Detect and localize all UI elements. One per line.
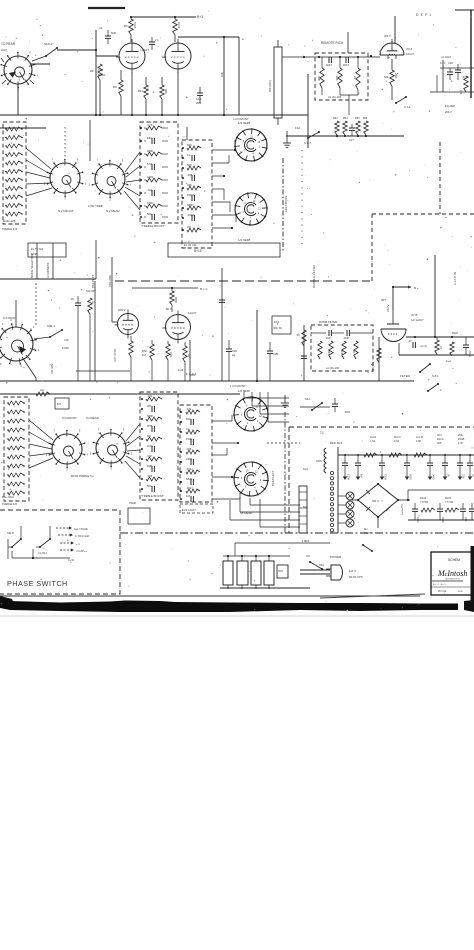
svg-text:C2: C2 xyxy=(187,153,191,157)
svg-text:C10A: C10A xyxy=(347,474,350,480)
strip2 resistor row 10 xyxy=(8,482,24,486)
psu wire y490 xyxy=(408,489,474,491)
svg-text:+(1.A): +(1.A) xyxy=(420,345,427,348)
TB4 component C4 xyxy=(186,430,200,434)
psu dashed boundary top xyxy=(289,426,474,428)
wire bottom in box xyxy=(340,94,358,96)
psu wire y520 xyxy=(408,519,474,521)
svg-text:680K: 680K xyxy=(186,477,192,481)
svg-text:.0047: .0047 xyxy=(343,336,350,340)
TB2 component 33K xyxy=(187,186,201,190)
svg-text:SCHEM: SCHEM xyxy=(448,558,460,562)
svg-text:DLA: DLA xyxy=(303,467,308,471)
bridge rectifier SR3 xyxy=(358,484,398,517)
lamp wires xyxy=(338,495,346,497)
svg-text:S 8-1: S 8-1 xyxy=(432,374,439,378)
svg-text:45B: 45B xyxy=(317,76,321,81)
svg-text:.0029: .0029 xyxy=(187,213,194,217)
TB4 component 1M xyxy=(190,496,192,502)
vertical wires with labels above bus xyxy=(36,243,38,279)
TB3 component R7B xyxy=(151,426,153,432)
resistor right cluster xyxy=(464,76,468,92)
strip2 resistor row 1 xyxy=(8,401,24,405)
TB2 component C2 xyxy=(191,155,193,161)
svg-text:63A 93V: 63A 93V xyxy=(86,289,96,293)
svg-text:SR7: SR7 xyxy=(381,299,386,302)
svg-text:BLK: BLK xyxy=(303,505,308,509)
svg-text:12AX7: 12AX7 xyxy=(188,311,197,315)
psu series resistor 2 xyxy=(389,453,402,457)
svg-text:S.0 FRONT: S.0 FRONT xyxy=(3,316,17,320)
wire x396 vertical xyxy=(392,287,394,310)
svg-text:.072: .072 xyxy=(186,407,192,411)
psu cap drop 0400 xyxy=(429,455,431,463)
svg-text:TREBLE 3x5: TREBLE 3x5 xyxy=(2,502,18,506)
strip2 resistor row 3 xyxy=(8,419,24,423)
svg-text:150K: 150K xyxy=(147,201,153,205)
resistor R12 xyxy=(160,85,164,99)
resistor row above bus 2 xyxy=(343,121,347,135)
svg-text:R9A 47A: R9A 47A xyxy=(372,362,375,372)
svg-text:1000: 1000 xyxy=(147,444,153,448)
bus y136 right xyxy=(286,135,404,137)
svg-text:OFF: OFF xyxy=(319,563,325,567)
cathode resistor under V3 xyxy=(391,59,393,70)
svg-text:100K: 100K xyxy=(133,22,137,29)
resistor 470K in box xyxy=(320,68,324,88)
TB4 component 680K xyxy=(190,479,192,485)
treble boost dashed box 2 xyxy=(182,140,212,248)
svg-text:R11: R11 xyxy=(138,89,143,93)
cap between tubes xyxy=(149,41,155,43)
svg-text:V7 B: V7 B xyxy=(411,313,418,317)
B+ arrow xyxy=(393,286,411,288)
electrolytic cap can 3 xyxy=(251,561,261,585)
power switch xyxy=(310,562,322,569)
tube V4 6EZ8 pin wheel xyxy=(235,129,267,161)
svg-text:REMOTE RICH: REMOTE RICH xyxy=(321,41,344,45)
title block outer box xyxy=(431,552,474,595)
svg-text:S Q-7: S Q-7 xyxy=(304,141,312,145)
dash wire V8 right xyxy=(267,442,300,444)
svg-text:1/2 6EZ8: 1/2 6EZ8 xyxy=(238,121,251,125)
svg-text:C+A+37A: C+A+37A xyxy=(401,504,404,515)
box R7A xyxy=(272,316,291,334)
svg-text:S4 REAR: S4 REAR xyxy=(86,416,100,420)
svg-text:200 V: 200 V xyxy=(118,308,126,312)
svg-text:A000: A000 xyxy=(409,474,412,480)
svg-text:S1R-2: S1R-2 xyxy=(44,42,53,46)
svg-text:680K: 680K xyxy=(147,414,153,418)
svg-text:.0047: .0047 xyxy=(325,336,332,340)
bus y394 xyxy=(0,393,240,395)
tube V3 half 12AX7 xyxy=(380,43,404,55)
strip2 resistor row 5 xyxy=(8,437,24,441)
svg-text:EL 20 74L: EL 20 74L xyxy=(184,243,197,247)
strip resistor row 7 xyxy=(6,178,22,182)
svg-text:P020: P020 xyxy=(452,331,459,335)
svg-text:33K: 33K xyxy=(187,183,192,187)
wire y337 right xyxy=(406,336,474,338)
resistor right mid 2 xyxy=(450,342,454,356)
svg-text:V 1-2: V 1-2 xyxy=(404,105,411,109)
title block rule 2 xyxy=(432,580,463,582)
svg-text:2 b: 2 b xyxy=(155,39,159,42)
scan band underline faint xyxy=(0,615,474,617)
svg-text:C+A: C+A xyxy=(446,360,451,363)
cap .47 xyxy=(412,342,414,348)
svg-text:6H: 6H xyxy=(364,527,367,531)
svg-text:R5: R5 xyxy=(124,24,128,28)
svg-text:5.6K: 5.6K xyxy=(147,162,153,166)
svg-text:ALL I PAGE: ALL I PAGE xyxy=(74,527,88,531)
svg-text:680K: 680K xyxy=(147,149,153,153)
svg-text:B+3: B+3 xyxy=(197,15,203,19)
svg-text:680K: 680K xyxy=(174,297,178,303)
svg-text:6,600: 6,600 xyxy=(62,346,69,350)
left column mid components xyxy=(303,325,305,381)
box B+15 xyxy=(168,243,280,257)
pilot lamp 4 xyxy=(346,519,354,527)
svg-text:T1: T1 xyxy=(320,431,324,435)
cap cans bottom wire xyxy=(220,587,310,589)
small box right of phase xyxy=(128,508,150,524)
wire top margin mark xyxy=(88,7,125,9)
TB3 component .022 xyxy=(146,397,162,401)
psu cap drop A0 xyxy=(357,455,359,463)
svg-text:12AX7: 12AX7 xyxy=(406,52,415,56)
svg-text:+0 C0A7: +0 C0A7 xyxy=(441,55,452,59)
svg-text:+ 4: + 4 xyxy=(76,543,80,546)
rumble filter dashed box xyxy=(311,325,373,371)
svg-text:A 4 + 1 - A + 2: A 4 + 1 - A + 2 xyxy=(433,583,446,586)
tube V7 half cup xyxy=(381,329,406,342)
TB2 component PART xyxy=(191,195,193,201)
phase arrow 4 xyxy=(60,549,72,551)
wire box to bus xyxy=(348,95,350,115)
svg-text:2a: 2a xyxy=(232,353,235,357)
svg-text:A.U.M: A.U.M xyxy=(416,436,423,439)
wire x257 vertical xyxy=(256,310,258,381)
scan noise speckles xyxy=(153,92,154,93)
svg-text:A.F.T.P IN: A.F.T.P IN xyxy=(453,272,457,285)
transformer terminals xyxy=(330,471,333,474)
svg-text:S9-1: S9-1 xyxy=(305,397,311,401)
rotary switch S2 REAR xyxy=(95,164,125,194)
rumble resistor 2 xyxy=(329,341,333,359)
svg-text:POWER: POWER xyxy=(330,555,342,559)
svg-text:MX 110: MX 110 xyxy=(438,590,447,593)
scan band left edge blob xyxy=(0,596,14,607)
svg-text:.022: .022 xyxy=(147,394,153,398)
psu cap drop C10A xyxy=(344,455,346,463)
svg-text:56K: 56K xyxy=(147,484,152,488)
svg-text:R7A: R7A xyxy=(274,320,279,324)
svg-text:C83: C83 xyxy=(464,517,467,522)
psu series resistor 1 xyxy=(364,453,377,457)
svg-text:CL-60-1: CL-60-1 xyxy=(38,551,48,555)
tube V8 pin wheel xyxy=(234,397,268,431)
treble boost dashed box 3 xyxy=(140,392,178,500)
tube V9 pin wheel xyxy=(234,462,268,496)
TB3 component C32 xyxy=(146,457,162,461)
svg-text:+O+3P++: +O+3P++ xyxy=(76,550,87,553)
resistor R27 xyxy=(166,344,170,360)
rumble cap b xyxy=(346,330,348,336)
strip resistor row 9 xyxy=(6,195,22,199)
svg-text:LOUDNESS: LOUDNESS xyxy=(46,262,50,278)
svg-text:.022: .022 xyxy=(147,188,153,192)
cap C26 xyxy=(228,340,230,349)
svg-text:S4 FRONT: S4 FRONT xyxy=(62,416,77,420)
nested corner wires right of tone xyxy=(229,500,231,520)
TB3 component 1M xyxy=(146,437,162,441)
rumble resistor 1 xyxy=(318,341,322,359)
cap right cluster xyxy=(455,69,461,71)
dash-dot boundary y281 xyxy=(115,280,370,282)
wire to V1 grid xyxy=(57,49,96,51)
psu cap drop A000 xyxy=(406,455,408,463)
svg-text:.0047: .0047 xyxy=(325,63,332,67)
TB2 component 50K xyxy=(187,166,201,170)
net wire into box xyxy=(282,56,322,58)
svg-text:BAL-NAM: BAL-NAM xyxy=(2,495,14,499)
wire vertical x224 xyxy=(223,37,225,115)
wire x222 vertical xyxy=(221,268,223,381)
svg-text:487: 487 xyxy=(147,404,152,408)
svg-text:EQ AMP: EQ AMP xyxy=(445,104,455,108)
phase arrow 3 xyxy=(60,542,72,544)
svg-text:C28: C28 xyxy=(448,61,453,65)
svg-text:50-60 CPS: 50-60 CPS xyxy=(349,575,363,579)
strip resistor row 3 xyxy=(6,144,22,148)
resistor R52 xyxy=(150,344,154,360)
small box 627 xyxy=(55,398,69,409)
svg-text:.02%: .02% xyxy=(344,410,351,414)
svg-text:EL/2 12AX7: EL/2 12AX7 xyxy=(182,508,196,512)
treble boost dashed box 4 xyxy=(180,405,212,502)
wire y371 xyxy=(76,370,130,372)
wire vertical x395 top xyxy=(394,16,396,43)
tube V5 6EZ8 pin wheel xyxy=(235,193,267,225)
small box EL.70 xyxy=(28,243,66,257)
box NO2 xyxy=(277,565,288,578)
S3 pointer xyxy=(19,346,26,354)
pilot lamp 3 xyxy=(346,510,354,518)
svg-text:MODE SELECTOR: MODE SELECTOR xyxy=(30,254,34,278)
electrolytic cap can 4 xyxy=(264,561,274,585)
svg-text:4.5K: 4.5K xyxy=(416,440,421,443)
scan band thin top line xyxy=(0,595,420,597)
svg-text:B + C: B + C xyxy=(200,287,208,291)
svg-text:.03MA: .03MA xyxy=(468,350,471,357)
TB2 component .0029 xyxy=(191,215,193,221)
svg-text:RUMB.FILTER: RUMB.FILTER xyxy=(319,320,337,324)
terminal strip dashed box left xyxy=(3,122,26,224)
svg-text:PC: PC xyxy=(352,350,355,354)
resistor row above bus 3 xyxy=(356,121,360,135)
vertical wire x90 xyxy=(89,120,91,161)
resistor R2 98,78 xyxy=(98,64,102,80)
svg-text:TO REAR: TO REAR xyxy=(1,42,16,46)
svg-text:2MF: 2MF xyxy=(196,101,202,105)
svg-text:.05: .05 xyxy=(296,334,300,337)
cap C28b xyxy=(269,342,271,351)
psu cap drop 90 xyxy=(469,455,471,463)
TB4 component ARM xyxy=(190,459,192,465)
svg-text:S 2 REAR: S 2 REAR xyxy=(106,209,121,213)
cap cans top wire xyxy=(223,555,290,557)
svg-text:RUMBLE FILTER: RUMBLE FILTER xyxy=(312,265,316,288)
svg-text:+C101-106: +C101-106 xyxy=(326,366,339,370)
TB1 component E9C xyxy=(151,138,153,144)
svg-text:R1CA: R1CA xyxy=(437,438,444,441)
wire vertical x239 xyxy=(238,37,240,115)
svg-text:.27A: .27A xyxy=(462,76,467,79)
S1 wafer ticks xyxy=(1,58,4,62)
dashed vertical x372 xyxy=(371,214,373,281)
svg-text:.0027: .0027 xyxy=(186,486,193,490)
svg-text:C+32: C+32 xyxy=(68,559,75,562)
tube V1 1/2 12AX7 xyxy=(119,43,145,69)
svg-text:TREBLE 3x3: TREBLE 3x3 xyxy=(2,227,18,231)
rumble resistor 3 xyxy=(342,341,346,359)
svg-text:680: 680 xyxy=(394,74,397,79)
wire x112 to V6a grid xyxy=(111,281,113,322)
svg-text:1.5A: 1.5A xyxy=(370,440,375,443)
svg-text:R9: R9 xyxy=(113,85,117,89)
right cluster wires xyxy=(440,67,474,69)
phase arrow 2 xyxy=(58,534,71,536)
resistor row above bus 4 xyxy=(364,121,368,135)
TB4 component .072 xyxy=(186,410,200,414)
svg-text:R2: R2 xyxy=(90,69,94,73)
svg-text:4.5A: 4.5A xyxy=(394,440,399,443)
rotary mode selector switch S3 xyxy=(0,327,33,361)
svg-text:1K: 1K xyxy=(353,76,357,79)
svg-text:200 V: 200 V xyxy=(445,110,452,114)
svg-text:50K: 50K xyxy=(187,163,192,167)
nested corner wires top psu xyxy=(243,392,245,398)
svg-text:4.7K: 4.7K xyxy=(147,123,153,127)
svg-text:D E F 1: D E F 1 xyxy=(416,13,432,17)
svg-text:PART: PART xyxy=(187,193,194,197)
wire vertical x308 xyxy=(307,74,309,148)
resistor right mid 1 xyxy=(435,340,439,354)
psu cap drop C06 xyxy=(459,455,461,463)
svg-text:PHASE SWITCH: PHASE SWITCH xyxy=(7,579,68,588)
svg-text:LABORATORY INC: LABORATORY INC xyxy=(445,578,461,581)
cap C27 xyxy=(349,127,355,129)
TB2 component 50K xyxy=(187,146,201,150)
tube V6b xyxy=(166,315,191,340)
svg-text:1/2 12AX7: 1/2 12AX7 xyxy=(411,318,424,322)
svg-text:BAL.BKZY: BAL.BKZY xyxy=(91,274,95,288)
resistor above V6b xyxy=(170,291,174,305)
rotary switch S4 FRONT xyxy=(52,434,82,464)
wires strip2 to S4F fan xyxy=(29,420,53,440)
strip resistor row 6 xyxy=(6,170,22,174)
svg-text:680: 680 xyxy=(164,89,168,94)
bridge diode ticks xyxy=(386,490,390,494)
svg-text:.47: .47 xyxy=(408,339,412,343)
svg-text:S 2 FRONT: S 2 FRONT xyxy=(58,209,74,213)
svg-text:R64: R64 xyxy=(343,117,348,120)
wire y355 right xyxy=(399,354,474,356)
switch S Q-7 xyxy=(308,132,319,138)
cap right mid xyxy=(463,344,469,346)
strip2 resistor row 7 xyxy=(8,455,24,459)
svg-text:SR 3: SR 3 xyxy=(372,499,379,503)
svg-text:47K: 47K xyxy=(459,90,463,95)
strip resistor row 1 xyxy=(6,127,22,131)
tube V2 cathode drop xyxy=(177,72,179,115)
svg-text:R65: R65 xyxy=(355,117,360,120)
wire vertical x96 xyxy=(95,30,97,115)
psu cap drop F2OK xyxy=(381,455,383,463)
TB4 component .0027 xyxy=(186,489,200,493)
svg-text:C4: C4 xyxy=(99,26,103,30)
TB1 component 680K xyxy=(146,152,162,156)
tube V6a xyxy=(118,314,139,335)
rotary switch S1 FRONT xyxy=(4,56,32,84)
svg-text:F2OK: F2OK xyxy=(384,474,387,481)
svg-text:R63: R63 xyxy=(333,117,338,120)
dash-dot separator y533 xyxy=(120,532,474,534)
svg-text:#32 100V: #32 100V xyxy=(51,363,54,374)
svg-text:.0047: .0047 xyxy=(186,467,193,471)
svg-text:BASS TREBLE 5 C: BASS TREBLE 5 C xyxy=(71,474,94,478)
power plug xyxy=(331,565,343,580)
svg-text:LOW TREB: LOW TREB xyxy=(88,204,103,208)
svg-text:3CV: 3CV xyxy=(437,434,442,437)
power cord xyxy=(300,569,330,571)
box EL 1/2 12AX7 bottom xyxy=(180,504,213,513)
svg-text:2MF: 2MF xyxy=(190,373,196,377)
strip resistor row 10 xyxy=(6,204,22,208)
strip2 resistor row 11 xyxy=(8,491,24,495)
svg-text:7.5 5W: 7.5 5W xyxy=(420,500,429,504)
resistor R31 xyxy=(129,341,133,357)
svg-text:PILOT: PILOT xyxy=(364,531,372,535)
svg-text:"TREBLE BOOST": "TREBLE BOOST" xyxy=(141,224,165,228)
stair wires TB2 to tubes xyxy=(212,149,235,151)
svg-text:S3R-1: S3R-1 xyxy=(47,324,55,328)
TB2 component .068 xyxy=(191,175,193,181)
bridge wires xyxy=(398,499,410,501)
filter switch S9-1 xyxy=(300,406,330,408)
svg-text:C24: C24 xyxy=(178,368,184,372)
svg-text:C 70(1) AAF: C 70(1) AAF xyxy=(75,534,90,538)
svg-text:50K: 50K xyxy=(187,143,192,147)
strip resistor row 5 xyxy=(6,161,22,165)
svg-text:SW-P: SW-P xyxy=(7,531,14,535)
svg-text:.005: .005 xyxy=(186,447,192,451)
svg-text:86 V: 86 V xyxy=(166,307,172,311)
svg-text:90K: 90K xyxy=(340,350,343,355)
switch pilot xyxy=(363,545,372,551)
strip resistor row 8 xyxy=(6,187,22,191)
svg-text:R10B: R10B xyxy=(458,438,465,441)
svg-text:50K (23V): 50K (23V) xyxy=(268,80,272,92)
TB4 component 56A xyxy=(190,419,192,425)
strip2 resistor row 2 xyxy=(8,410,24,414)
svg-text:R103: R103 xyxy=(445,496,452,500)
svg-text:360 V: 360 V xyxy=(384,34,391,38)
svg-text:R1B FM 5%: R1B FM 5% xyxy=(114,348,117,362)
tube V2 1/2 12AX7 xyxy=(165,43,191,69)
svg-text:1/2 6EZ8: 1/2 6EZ8 xyxy=(238,238,251,242)
